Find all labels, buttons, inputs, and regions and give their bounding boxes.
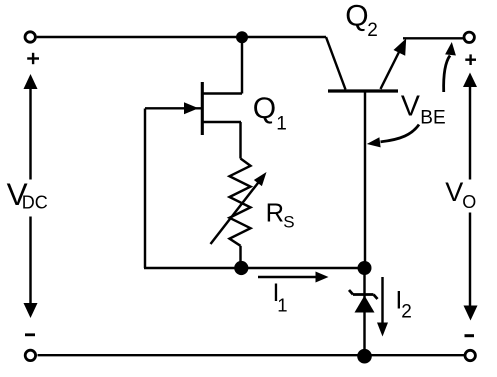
label + (left) — [27, 53, 39, 64]
label I2 — [395, 287, 411, 323]
diode D1 (zener) — [349, 268, 378, 355]
arrow: output swoosh near terminal — [444, 42, 456, 92]
svg-text:2: 2 — [401, 302, 412, 323]
label - (left) — [25, 333, 35, 336]
wire: source lead to RS — [239, 122, 241, 159]
svg-text:2: 2 — [367, 20, 378, 41]
wire: Q2 base lead — [364, 93, 366, 269]
wire: gate feedback — [144, 109, 365, 269]
svg-text:V: V — [445, 177, 463, 207]
svg-text:1: 1 — [276, 113, 287, 134]
current arrow I2 — [377, 277, 388, 337]
label VO — [445, 177, 476, 212]
resistor RS (variable) — [211, 159, 267, 269]
arrow: VBE pointer (curved) — [367, 125, 419, 148]
transistor Q2 (BJT) — [326, 37, 406, 91]
svg-text:DC: DC — [22, 193, 48, 213]
terminal: top-left input — [25, 32, 35, 42]
wire: drain riser — [241, 37, 243, 94]
wire: bottom rail — [38, 354, 465, 356]
label VBE — [401, 90, 446, 128]
label RS — [266, 199, 295, 231]
svg-text:Q: Q — [253, 92, 276, 125]
node: bottom rail junction — [357, 349, 372, 364]
voltage arrow VDC — [24, 74, 38, 318]
label + (right) — [465, 54, 476, 65]
svg-text:1: 1 — [277, 294, 287, 315]
terminal: bottom-right — [465, 350, 475, 360]
svg-text:R: R — [266, 199, 284, 227]
svg-text:BE: BE — [420, 107, 445, 128]
svg-text:V: V — [401, 90, 420, 122]
label VDC — [7, 176, 48, 213]
transistor Q1 (JFET) — [145, 82, 242, 135]
node: zener top junction — [358, 261, 372, 275]
label Q1 — [253, 92, 287, 135]
current arrow I1 — [258, 272, 329, 283]
terminal: bottom-left — [25, 350, 35, 360]
svg-text:Q: Q — [345, 0, 368, 33]
label - (right) — [465, 334, 475, 337]
svg-text:O: O — [462, 192, 476, 212]
node: top rail junction — [236, 31, 248, 43]
wire: emitter to output terminal — [403, 37, 464, 39]
wire: top rail — [37, 36, 326, 38]
label I1 — [273, 279, 288, 315]
node: RS bottom junction — [234, 261, 248, 275]
terminal: top-right output — [464, 32, 474, 42]
label Q2 — [345, 0, 378, 41]
svg-text:S: S — [283, 213, 294, 232]
voltage arrow VO — [463, 73, 478, 321]
